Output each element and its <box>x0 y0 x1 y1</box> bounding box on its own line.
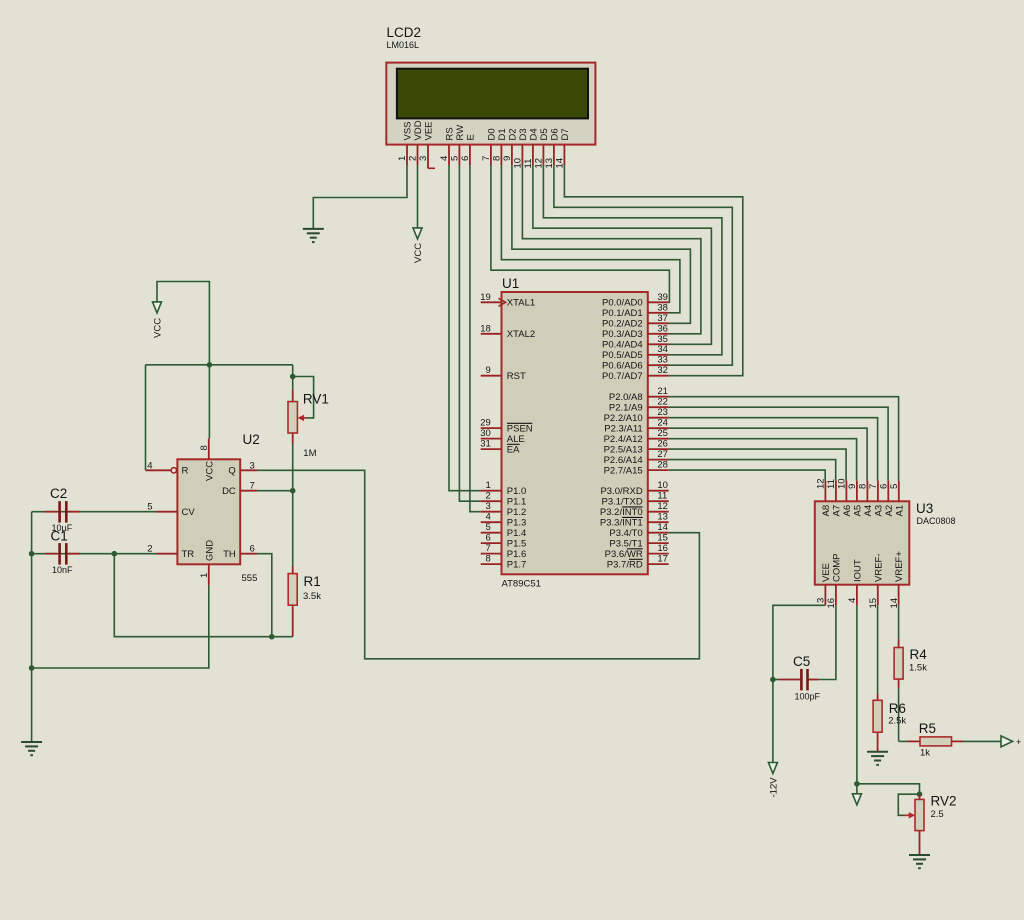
wire LCD D1 to U1 P0.1/AD1 <box>501 165 680 313</box>
LCD2 screen <box>397 69 588 119</box>
svg-text:4: 4 <box>439 156 450 161</box>
svg-text:P3.4/T0: P3.4/T0 <box>609 528 642 539</box>
svg-text:R1: R1 <box>304 574 321 589</box>
svg-text:A3: A3 <box>874 505 885 517</box>
wire LCD D6 to U1 P0.6/AD6 <box>554 165 732 365</box>
svg-text:D6: D6 <box>550 128 561 140</box>
svg-text:A7: A7 <box>832 505 843 517</box>
LCD2 pin 3 VEE <box>418 121 435 168</box>
svg-text:34: 34 <box>657 344 668 355</box>
svg-text:14: 14 <box>657 522 668 533</box>
svg-text:2: 2 <box>408 156 419 161</box>
svg-text:D1: D1 <box>497 128 508 140</box>
LCD2 pin 12 D5 <box>534 128 550 168</box>
svg-text:VCC: VCC <box>153 318 164 338</box>
svg-text:31: 31 <box>480 439 491 450</box>
U1 pin 27 P2.6/A14 <box>604 449 669 466</box>
microcontroller U1 AT89C51 <box>502 276 519 291</box>
U1 pin 4 P1.3 <box>481 512 527 529</box>
svg-text:VDD: VDD <box>413 120 424 140</box>
U1 pin 15 P3.5/T1 <box>609 533 668 550</box>
U1 pin 10 P3.0/RXD <box>600 480 668 497</box>
svg-text:VREF-: VREF- <box>873 554 884 583</box>
svg-text:DC: DC <box>222 486 236 497</box>
svg-text:D0: D0 <box>487 128 498 140</box>
svg-text:4: 4 <box>847 598 858 603</box>
svg-text:P1.7: P1.7 <box>507 560 527 571</box>
LCD2 pin 1 VSS <box>397 121 413 165</box>
U3 pin 12 A8 <box>816 478 832 516</box>
U2 body <box>177 459 240 564</box>
U3 pin 15 VREF- <box>868 554 884 609</box>
svg-text:1.5k: 1.5k <box>909 663 927 674</box>
svg-text:12: 12 <box>534 158 545 169</box>
U1 pin 8 P1.7 <box>481 554 527 571</box>
svg-text:26: 26 <box>657 439 668 450</box>
svg-text:P3.3/INT1: P3.3/INT1 <box>600 518 643 529</box>
svg-text:A6: A6 <box>842 505 853 517</box>
svg-text:33: 33 <box>657 355 668 366</box>
svg-text:VCC: VCC <box>413 243 424 263</box>
svg-text:19: 19 <box>480 292 491 303</box>
svg-text:P3.6/WR: P3.6/WR <box>605 549 643 560</box>
svg-text:VREF+: VREF+ <box>894 551 905 582</box>
svg-text:39: 39 <box>657 292 668 303</box>
U1 pin 11 P3.1/TXD <box>602 491 669 508</box>
svg-text:30: 30 <box>480 428 491 439</box>
svg-text:VSS: VSS <box>403 121 414 140</box>
U1 pin 1 P1.0 <box>481 480 527 497</box>
resistor R6 2.5k <box>877 694 879 752</box>
junction C1 left / left rail <box>29 551 35 557</box>
svg-text:18: 18 <box>480 323 491 334</box>
U2 pin 5 CV <box>147 502 195 518</box>
svg-text:R: R <box>182 466 189 477</box>
LCD2 pin 6 E <box>460 134 476 165</box>
capacitor C2 10uF <box>45 511 80 513</box>
svg-text:RV1: RV1 <box>303 392 329 407</box>
svg-text:-12V: -12V <box>769 777 780 798</box>
wire LCD D3 to U1 P0.3/AD3 <box>522 165 701 334</box>
svg-text:1: 1 <box>486 480 491 491</box>
svg-text:GND: GND <box>204 540 215 561</box>
svg-text:1: 1 <box>199 573 210 578</box>
svg-text:P1.1: P1.1 <box>507 497 527 508</box>
svg-text:D7: D7 <box>560 128 571 140</box>
ground symbol left rail <box>21 742 42 755</box>
svg-text:8: 8 <box>492 156 503 161</box>
svg-text:1M: 1M <box>303 448 316 459</box>
svg-text:+: + <box>1016 737 1021 747</box>
wire LCD D5 to U1 P0.5/AD5 <box>543 165 722 355</box>
svg-text:DAC0808: DAC0808 <box>917 516 956 526</box>
U1 pin 3 P1.2 <box>481 501 527 518</box>
wire U3 VREF+ pin14 to R4 <box>898 605 900 639</box>
U3 pin 8 A4 <box>858 481 874 517</box>
wire TR branch down to R1 bottom <box>114 554 292 637</box>
wire C5 right lead to U3 COMP pin16 <box>808 605 836 679</box>
U1 pin 38 P0.1/AD1 <box>602 302 669 319</box>
svg-text:3.5k: 3.5k <box>303 591 321 602</box>
svg-text:P0.6/AD6: P0.6/AD6 <box>602 361 643 372</box>
U1 pin 13 P3.3/INT1 <box>600 512 669 529</box>
U1 pin 32 P0.7/AD7 <box>602 365 669 382</box>
U3 pin 14 VREF+ <box>889 551 905 609</box>
U1 part label AT89C51 <box>502 579 541 590</box>
svg-text:4: 4 <box>147 460 152 471</box>
svg-text:P3.7/RD: P3.7/RD <box>607 560 643 571</box>
svg-text:C1: C1 <box>51 529 68 544</box>
svg-text:E: E <box>466 134 477 140</box>
U1 pin 36 P0.3/AD3 <box>602 323 669 340</box>
svg-text:1k: 1k <box>920 748 930 759</box>
potentiometer RV1 1M <box>288 390 329 459</box>
wire LCD D0 to U1 P0.0/AD0 <box>491 165 670 302</box>
svg-text:29: 29 <box>480 418 491 429</box>
junction TH branch / bottom wire <box>269 634 275 640</box>
LCD2 pin 5 RW <box>450 125 467 165</box>
power terminal (IOUT arrow down) <box>852 794 861 805</box>
wire LCD pin6 E to U1 P1.2 <box>470 165 481 512</box>
svg-text:P2.4/A12: P2.4/A12 <box>604 434 643 445</box>
svg-text:A5: A5 <box>853 505 864 517</box>
svg-text:9: 9 <box>847 484 858 489</box>
U1 pin 22 P2.1/A9 <box>609 397 669 414</box>
U3 pin 9 A5 <box>847 481 863 517</box>
svg-text:12: 12 <box>816 478 827 489</box>
U1 pin 35 P0.4/AD4 <box>602 334 669 351</box>
svg-text:P0.1/AD1: P0.1/AD1 <box>602 308 643 319</box>
wire U1 P2.0/A8 to U3 A8 <box>669 397 899 481</box>
U1 pin 6 P1.5 <box>481 533 527 550</box>
U1 pin 26 P2.5/A13 <box>604 439 669 456</box>
wire U2 DC pin7 to divider <box>257 490 293 492</box>
svg-text:P1.3: P1.3 <box>507 518 527 529</box>
svg-text:13: 13 <box>657 512 668 523</box>
svg-text:24: 24 <box>657 418 668 429</box>
LCD2 pin 9 D2 <box>502 128 518 165</box>
svg-text:5: 5 <box>889 484 900 489</box>
svg-text:P2.6/A14: P2.6/A14 <box>604 455 643 466</box>
svg-text:EA: EA <box>507 445 520 456</box>
wire RV1 wiper loop <box>293 377 314 418</box>
U2 pin 1 GND <box>199 540 216 585</box>
svg-text:16: 16 <box>657 543 668 554</box>
svg-text:12: 12 <box>657 501 668 512</box>
output terminal arrow + <box>1001 736 1021 747</box>
svg-text:TR: TR <box>182 549 195 560</box>
svg-text:11: 11 <box>657 491 667 502</box>
svg-text:14: 14 <box>555 158 566 169</box>
svg-text:6: 6 <box>460 156 471 161</box>
U1 body <box>502 292 648 574</box>
svg-text:ALE: ALE <box>507 434 525 445</box>
svg-text:11: 11 <box>826 479 837 489</box>
wire R4 bottom to R5 <box>899 688 908 742</box>
U2 pin 8 VCC <box>199 439 216 482</box>
svg-text:C2: C2 <box>50 486 67 501</box>
svg-text:P0.3/AD3: P0.3/AD3 <box>602 329 643 340</box>
svg-text:C5: C5 <box>793 654 810 669</box>
svg-text:28: 28 <box>657 460 668 471</box>
U3 pin 16 COMP <box>826 554 842 609</box>
svg-text:P2.3/A11: P2.3/A11 <box>604 424 642 435</box>
svg-text:38: 38 <box>657 302 668 313</box>
svg-text:5: 5 <box>486 522 491 533</box>
svg-text:7: 7 <box>481 156 492 161</box>
wire LCD D7 to U1 P0.7/AD7 <box>564 165 742 376</box>
wire VCC rail horizontal <box>146 364 293 366</box>
svg-text:R6: R6 <box>889 701 906 716</box>
U2 part label 555 <box>242 573 258 584</box>
svg-text:P1.6: P1.6 <box>507 549 527 560</box>
wire LCD pin1 VSS to ground <box>313 165 407 229</box>
ground symbol below LCD pin1 <box>303 229 324 242</box>
svg-text:7: 7 <box>486 543 491 554</box>
svg-text:P3.0/RXD: P3.0/RXD <box>600 486 642 497</box>
U1 pin 18 XTAL2 <box>480 323 535 340</box>
U3 pin 3 VEE <box>816 563 832 605</box>
LCD2 pin 11 D4 <box>523 128 539 168</box>
svg-text:P3.2/INT0: P3.2/INT0 <box>600 507 643 518</box>
svg-text:36: 36 <box>657 323 668 334</box>
svg-text:P2.0/A8: P2.0/A8 <box>609 392 643 403</box>
U1 pin 16 P3.6/WR <box>605 543 669 560</box>
svg-text:32: 32 <box>657 365 668 376</box>
wire RV1 branch vertical (VCC rail to R1) <box>292 365 294 567</box>
svg-text:AT89C51: AT89C51 <box>502 579 541 590</box>
U1 pin 30 ALE <box>480 428 525 445</box>
svg-text:D5: D5 <box>539 128 550 140</box>
svg-text:10nF: 10nF <box>52 565 73 575</box>
U2 pin 7 DC <box>222 481 257 497</box>
svg-text:10: 10 <box>837 478 848 489</box>
svg-text:R5: R5 <box>919 721 936 736</box>
U2 pin 2 TR <box>147 544 194 560</box>
svg-text:6: 6 <box>486 533 491 544</box>
U1 pin 24 P2.3/A11 <box>604 418 668 435</box>
wire U1 P2.7/A15 to U3 A1 <box>669 470 826 481</box>
capacitor C1 10nF <box>45 553 80 555</box>
svg-text:11: 11 <box>523 159 534 169</box>
svg-text:VCC: VCC <box>204 461 215 481</box>
LCD2 pin 13 D6 <box>544 128 560 168</box>
junction RV1 wiper tap <box>290 374 296 380</box>
svg-text:27: 27 <box>657 449 668 460</box>
svg-text:555: 555 <box>242 573 258 584</box>
wire LCD pin2 VDD to VCC terminal <box>417 165 419 228</box>
svg-text:P1.4: P1.4 <box>507 528 527 539</box>
wire R5 right to output terminal <box>963 740 1001 742</box>
junction TR branch <box>112 551 118 557</box>
svg-text:P1.0: P1.0 <box>507 486 527 497</box>
wire VCC terminal to U2 pin8 rail <box>157 282 209 439</box>
svg-text:A2: A2 <box>884 505 895 517</box>
power terminal VCC (LCD VDD) <box>413 228 424 263</box>
U1 pin 21 P2.0/A8 <box>609 386 669 403</box>
svg-text:3: 3 <box>486 501 491 512</box>
ground symbol below R6 <box>867 752 888 765</box>
wire U2 GND pin1 to left rail <box>32 585 209 668</box>
wire U1 P2.4/A12 to U3 A4 <box>669 439 857 481</box>
U1 pin 28 P2.7/A15 <box>604 460 669 477</box>
svg-text:6: 6 <box>250 544 255 555</box>
svg-text:21: 21 <box>657 386 668 397</box>
LCD2 pin 10 D3 <box>513 128 529 168</box>
svg-text:6: 6 <box>879 484 890 489</box>
wire U1 P2.2/A10 to U3 A6 <box>669 418 878 481</box>
svg-text:TH: TH <box>223 549 236 560</box>
svg-text:8: 8 <box>858 484 869 489</box>
DAC U3 DAC0808 <box>916 501 956 526</box>
wire C5 left lead <box>773 679 801 681</box>
svg-text:P1.5: P1.5 <box>507 539 527 550</box>
svg-text:P0.7/AD7: P0.7/AD7 <box>602 371 643 382</box>
U1 pin 14 P3.4/T0 <box>609 522 668 539</box>
U1 pin 31 EA <box>480 439 520 456</box>
wire LCD D4 to U1 P0.4/AD4 <box>533 165 712 344</box>
U1 pin 25 P2.4/A12 <box>604 428 669 445</box>
svg-text:U1: U1 <box>502 276 519 291</box>
svg-text:XTAL1: XTAL1 <box>507 298 535 309</box>
U1 pin 12 P3.2/INT0 <box>600 501 669 518</box>
wire U3 IOUT pin4 down <box>856 605 858 794</box>
svg-text:23: 23 <box>657 407 668 418</box>
svg-text:8: 8 <box>486 554 491 565</box>
potentiometer RV2 2.5 <box>905 794 957 856</box>
wire U3 VEE pin3 to -12V terminal <box>773 605 826 762</box>
svg-text:3: 3 <box>250 460 255 471</box>
U1 pin 34 P0.5/AD5 <box>602 344 669 361</box>
svg-text:VEE: VEE <box>424 121 435 140</box>
LCD2 body <box>386 63 595 145</box>
U1 pin 5 P1.4 <box>481 522 527 539</box>
U1 pin 2 P1.1 <box>481 491 527 508</box>
power terminal VCC (555) <box>153 302 164 338</box>
svg-text:2.5: 2.5 <box>931 809 944 820</box>
U1 pin 17 P3.7/RD <box>607 554 669 571</box>
U3 pin 10 A6 <box>837 478 853 516</box>
junction IOUT node <box>854 781 860 787</box>
svg-text:P0.5/AD5: P0.5/AD5 <box>602 350 643 361</box>
U1 pin 9 RST <box>481 365 526 382</box>
power terminal -12V <box>768 763 779 798</box>
svg-text:17: 17 <box>657 554 668 565</box>
svg-text:5: 5 <box>147 502 152 513</box>
junction RV2 top <box>917 791 923 797</box>
svg-text:LCD2: LCD2 <box>387 25 422 40</box>
LCD display LCD2 LM016L <box>387 25 422 50</box>
wire U2 CV pin5 to C2 <box>32 511 157 513</box>
wire RV2 wiper loop <box>898 794 919 815</box>
wire LCD D2 to U1 P0.2/AD2 <box>512 165 691 323</box>
svg-text:P3.1/TXD: P3.1/TXD <box>602 497 643 508</box>
svg-text:U2: U2 <box>243 432 260 447</box>
svg-text:P2.2/A10: P2.2/A10 <box>604 413 643 424</box>
svg-text:1: 1 <box>397 156 408 161</box>
wire IOUT node to RV2 top <box>857 784 920 794</box>
svg-text:P0.2/AD2: P0.2/AD2 <box>602 319 643 330</box>
svg-text:D4: D4 <box>529 128 540 140</box>
ground symbol below RV2 <box>909 855 930 868</box>
wire U1 P2.3/A11 to U3 A5 <box>669 428 867 481</box>
U3 pin 6 A2 <box>879 481 895 517</box>
svg-text:P2.7/A15: P2.7/A15 <box>604 466 643 477</box>
U3 pin 5 A1 <box>889 481 905 517</box>
svg-text:P2.1/A9: P2.1/A9 <box>609 403 643 414</box>
svg-text:16: 16 <box>826 598 837 609</box>
U1 pin 33 P0.6/AD6 <box>602 355 669 372</box>
wire left rail vertical to ground <box>31 512 33 742</box>
U1 pin 29 PSEN <box>480 418 533 435</box>
U1 pin 37 P0.2/AD2 <box>602 313 669 330</box>
svg-text:A1: A1 <box>894 505 905 517</box>
svg-text:2: 2 <box>486 491 491 502</box>
junction GND wire / left rail <box>29 665 35 671</box>
capacitor C5 100pF <box>793 654 821 702</box>
svg-text:25: 25 <box>657 428 668 439</box>
resistor R4 1.5k <box>898 640 900 688</box>
svg-text:A8: A8 <box>821 505 832 517</box>
svg-text:3: 3 <box>418 156 429 161</box>
U2 pin 4 R (with inversion circle) <box>147 460 188 476</box>
U2 pin 3 Q <box>228 460 257 476</box>
svg-text:9: 9 <box>502 156 513 161</box>
svg-text:CV: CV <box>182 507 196 518</box>
U1 pin 7 P1.6 <box>481 543 527 560</box>
svg-text:U3: U3 <box>916 501 933 516</box>
svg-text:4: 4 <box>486 512 491 523</box>
wire VCC rail to U2 R pin4 <box>146 365 172 471</box>
wire U2 Q to U1 P3.4/T0 <box>257 470 699 659</box>
timer U2 555 <box>243 432 260 447</box>
svg-text:P1.2: P1.2 <box>507 507 527 518</box>
junction VCC rail / pin8 <box>207 362 213 368</box>
svg-text:Q: Q <box>228 466 235 477</box>
wire U3 VREF- pin15 to R6 <box>877 605 879 694</box>
LCD2 pin 2 VDD <box>408 120 424 165</box>
wire LCD pin5 RW to U1 P1.1 <box>459 165 480 501</box>
svg-text:2: 2 <box>147 544 152 555</box>
wire U1 P2.5/A13 to U3 A3 <box>669 449 846 481</box>
LCD2 pin 14 D7 <box>555 128 571 168</box>
svg-text:13: 13 <box>544 158 555 169</box>
wire U1 P2.1/A9 to U3 A7 <box>669 407 888 481</box>
wire C1 line to U2 TR pin2 <box>32 553 157 555</box>
svg-text:10: 10 <box>657 480 668 491</box>
svg-text:5: 5 <box>450 156 461 161</box>
svg-text:100pF: 100pF <box>795 692 821 702</box>
svg-text:RW: RW <box>455 125 466 141</box>
svg-text:15: 15 <box>868 598 879 609</box>
resistor R5 1k <box>908 721 963 759</box>
svg-text:P3.5/T1: P3.5/T1 <box>609 539 642 550</box>
U1 pin 19 XTAL1 <box>480 292 535 309</box>
svg-text:37: 37 <box>657 313 668 324</box>
svg-text:2.5k: 2.5k <box>888 716 906 727</box>
wire U2 TH pin6 branch <box>257 554 272 637</box>
svg-text:COMP: COMP <box>832 554 843 583</box>
svg-text:D3: D3 <box>518 128 529 140</box>
U1 pin 39 P0.0/AD0 <box>602 292 669 309</box>
wire U1 P2.6/A14 to U3 A2 <box>669 460 836 481</box>
svg-text:A4: A4 <box>863 505 874 517</box>
svg-text:10: 10 <box>513 158 524 169</box>
svg-text:P2.5/A13: P2.5/A13 <box>604 445 643 456</box>
svg-text:LM016L: LM016L <box>387 40 420 50</box>
svg-text:P0.0/AD0: P0.0/AD0 <box>602 298 643 309</box>
svg-text:9: 9 <box>486 365 491 376</box>
